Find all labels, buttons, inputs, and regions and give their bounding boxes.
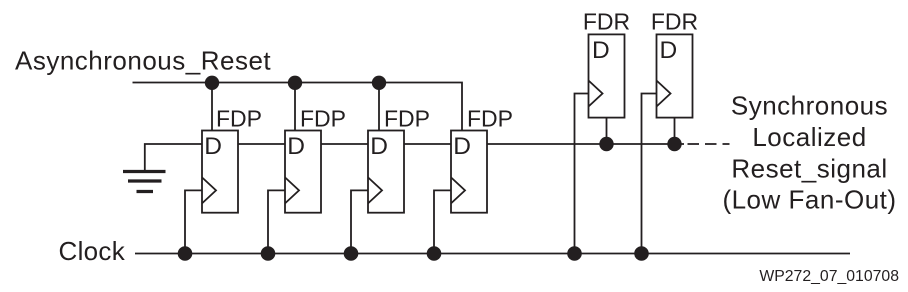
svg-text:FDR: FDR — [651, 9, 698, 35]
svg-text:Asynchronous_Reset: Asynchronous_Reset — [15, 46, 271, 76]
svg-text:D: D — [370, 133, 388, 160]
svg-text:Reset_signal: Reset_signal — [731, 153, 887, 183]
wire dashed continuation — [688, 143, 730, 145]
node async junction 2 — [288, 76, 302, 90]
wire Asynchronous_Reset net — [133, 83, 463, 131]
svg-text:FDP: FDP — [216, 106, 262, 132]
svg-text:FDP: FDP — [467, 106, 513, 132]
wire clock to FDP3 — [351, 190, 368, 253]
wire Clock net — [135, 253, 850, 255]
svg-text:FDP: FDP — [300, 106, 346, 132]
flip-flop FDP2 body — [285, 131, 321, 213]
wire localized reset net — [487, 143, 684, 145]
svg-text:D: D — [660, 37, 678, 64]
node reset junction U5 — [599, 137, 613, 151]
flip-flop FDR U5 body — [589, 34, 625, 117]
wire FDR U6 R pin — [674, 118, 676, 144]
wire clock to FDP4 — [434, 190, 451, 253]
wire clock to FDR U5 — [575, 94, 589, 254]
flip-flop FDP1 body — [202, 131, 238, 213]
node clock junction 5 — [567, 246, 582, 261]
svg-text:Localized: Localized — [752, 122, 866, 152]
wire clock to FDP2 — [268, 190, 285, 253]
node clock junction 1 — [178, 246, 193, 261]
svg-text:WP272_07_010708: WP272_07_010708 — [759, 268, 899, 285]
wire PRE drop FDP2 — [294, 83, 296, 131]
svg-text:D: D — [204, 133, 222, 160]
svg-text:FDP: FDP — [384, 106, 430, 132]
flip-flop FDP4 body — [451, 131, 487, 213]
node clock junction 3 — [344, 246, 359, 261]
flip-flop FDP3 body — [368, 131, 404, 213]
svg-text:D: D — [592, 37, 610, 64]
node reset junction U6 — [667, 137, 681, 151]
svg-text:FDR: FDR — [583, 9, 630, 35]
wire clock to FDR U6 — [642, 94, 657, 254]
node async junction 1 — [205, 76, 219, 90]
wire clock to FDP1 — [185, 190, 202, 253]
wire ground feed to FDP1 D — [145, 144, 202, 170]
flip-flop FDR U6 body — [657, 34, 693, 117]
wire PRE drop FDP3 — [378, 83, 380, 131]
svg-text:D: D — [287, 133, 305, 160]
wire PRE drop FDP1 — [211, 83, 213, 131]
svg-text:Synchronous: Synchronous — [731, 91, 888, 121]
svg-text:Clock: Clock — [59, 236, 126, 266]
wire FDP2 Q to FDP3 D — [321, 143, 368, 145]
node clock junction 2 — [261, 246, 276, 261]
node clock junction 4 — [427, 246, 442, 261]
node clock junction 6 — [634, 246, 649, 261]
net label Synchronous Localized Reset_signal (Low Fan-Out) — [722, 91, 896, 215]
svg-text:(Low Fan-Out): (Low Fan-Out) — [722, 185, 896, 215]
svg-text:D: D — [453, 133, 471, 160]
wire FDP3 Q to FDP4 D — [404, 143, 451, 145]
node async junction 3 — [372, 76, 386, 90]
wire FDR U5 R pin — [606, 118, 608, 144]
ground — [123, 172, 166, 192]
wire FDP1 Q to FDP2 D — [238, 143, 285, 145]
